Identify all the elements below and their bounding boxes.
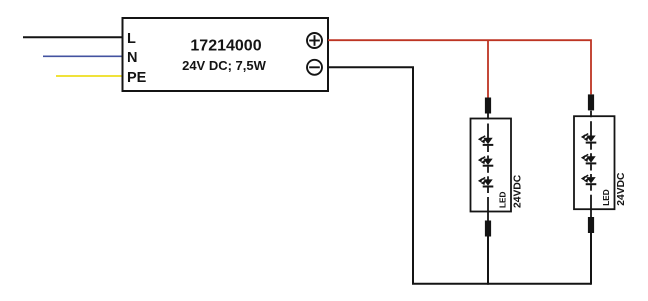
LED module 2 internal wire xyxy=(590,111,592,219)
wire +24V red bus xyxy=(328,40,591,94)
LED D3 xyxy=(478,178,493,187)
LED module 2 box xyxy=(574,116,615,209)
wire module 2 bottom drop xyxy=(590,233,592,285)
LED module 1 box xyxy=(471,119,512,212)
connector terminal bottom module 1 xyxy=(485,221,491,237)
LED module 1 internal wire xyxy=(487,113,489,221)
terminal - (minus output) xyxy=(307,60,322,75)
connector terminal top module 1 xyxy=(485,98,491,114)
svg-text:N: N xyxy=(127,50,137,66)
svg-text:24V DC; 7,5W: 24V DC; 7,5W xyxy=(182,58,267,73)
LED D6 xyxy=(581,175,596,184)
svg-text:24VDC: 24VDC xyxy=(616,172,627,206)
wire L (black input) xyxy=(23,36,123,38)
wire module 1 bottom drop xyxy=(487,236,489,285)
wire PE (yellow input) xyxy=(56,75,122,77)
svg-text:L: L xyxy=(127,31,136,47)
wire red branch to module 1 xyxy=(487,40,489,97)
wire N (blue input) xyxy=(43,55,123,57)
LED D4 xyxy=(581,134,596,143)
LED D2 xyxy=(478,157,493,166)
connector terminal bottom module 2 xyxy=(588,217,594,233)
svg-text:17214000: 17214000 xyxy=(190,38,261,55)
svg-text:PE: PE xyxy=(127,70,147,86)
power supply U1 17214000 xyxy=(123,18,329,91)
LED D1 xyxy=(478,136,493,145)
svg-text:24VDC: 24VDC xyxy=(513,174,524,208)
svg-text:LED: LED xyxy=(499,192,508,208)
LED D5 xyxy=(581,154,596,163)
svg-text:LED: LED xyxy=(602,189,611,205)
terminal + (plus output) xyxy=(307,33,322,48)
wire 0V black return xyxy=(328,67,591,283)
connector terminal top module 2 xyxy=(588,94,594,110)
